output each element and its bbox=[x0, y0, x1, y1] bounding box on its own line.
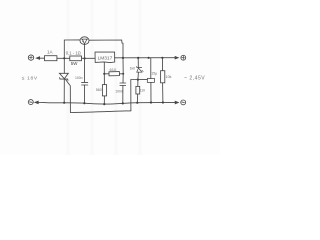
svg-text:0,1 - 1Ω: 0,1 - 1Ω bbox=[66, 51, 81, 56]
svg-text:100n: 100n bbox=[75, 76, 83, 80]
svg-text:1A: 1A bbox=[47, 49, 54, 54]
svg-text:560: 560 bbox=[96, 88, 102, 92]
svg-text:5W: 5W bbox=[71, 61, 78, 66]
svg-text:610: 610 bbox=[110, 67, 117, 72]
svg-text:100n: 100n bbox=[115, 89, 123, 93]
svg-text:15µ: 15µ bbox=[151, 71, 157, 75]
svg-text:~ 2,45V: ~ 2,45V bbox=[184, 75, 205, 81]
svg-text:1k0: 1k0 bbox=[130, 66, 136, 70]
svg-text:≤ 18V: ≤ 18V bbox=[22, 76, 38, 82]
svg-text:LM317: LM317 bbox=[98, 55, 113, 61]
svg-text:10k: 10k bbox=[166, 75, 172, 79]
svg-text:110: 110 bbox=[140, 88, 146, 92]
